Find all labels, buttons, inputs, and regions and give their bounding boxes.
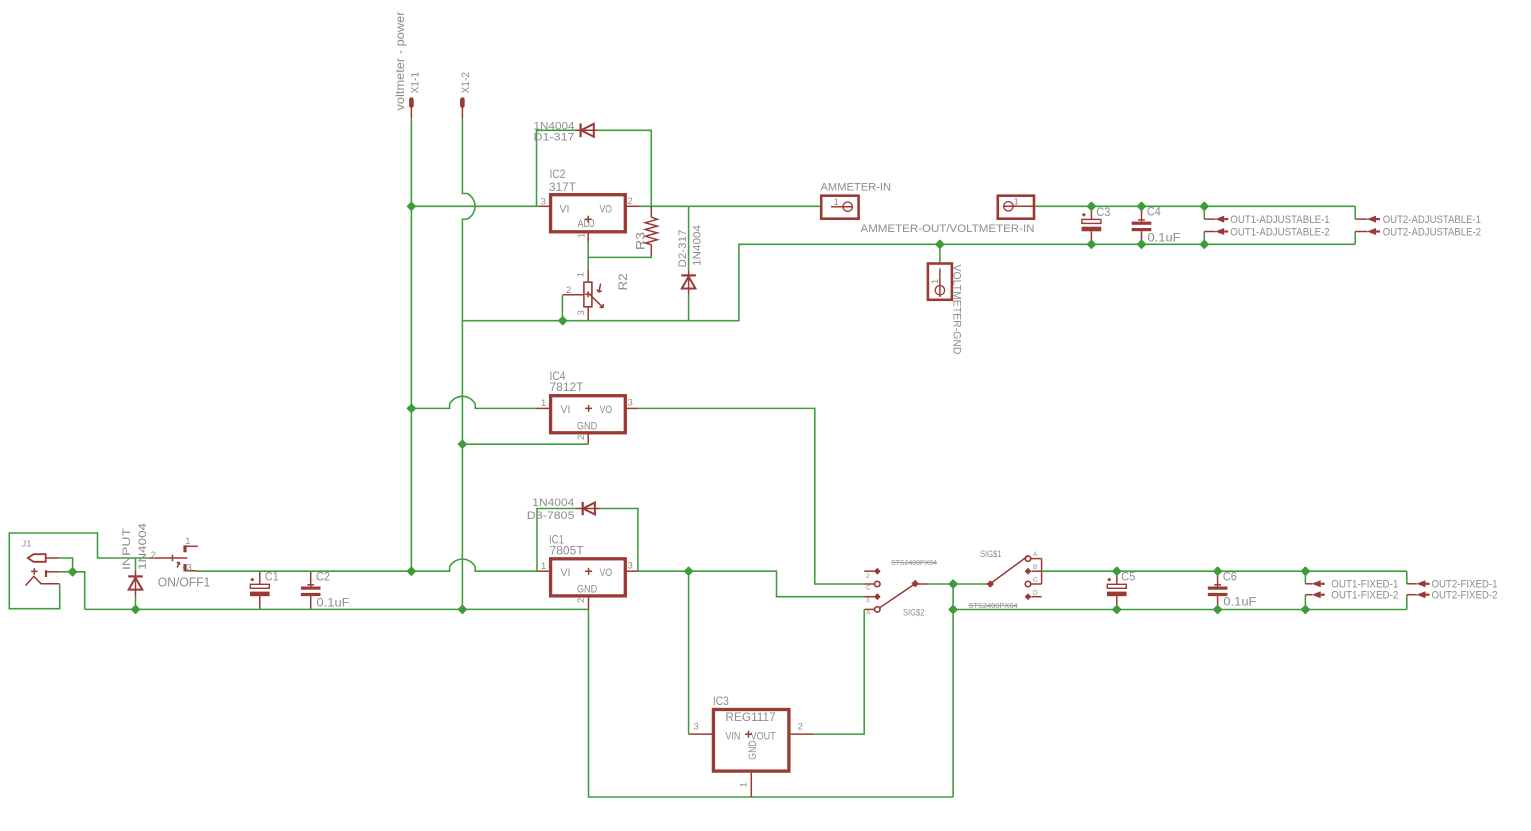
resistor R3 [645, 206, 657, 256]
capacitor C3 (electrolytic) [1082, 206, 1102, 244]
connector OUT2-FIXED-2 arrow [1407, 591, 1430, 598]
wire IC3 gnd rail up to SIG junction [952, 584, 954, 797]
connector OUT2-ADJUSTABLE-1 arrow [1355, 216, 1380, 223]
svg-text:R2: R2 [616, 273, 630, 290]
svg-text:C: C [1033, 577, 1038, 584]
IC1 origin cross [585, 568, 592, 575]
wire IC1 VO to SIG2 row [638, 571, 864, 597]
svg-text:C4: C4 [1147, 205, 1161, 219]
svg-text:OUT2-ADJUSTABLE-1: OUT2-ADJUSTABLE-1 [1383, 214, 1481, 226]
wire main rail C1/C2 row to IC1 with hop [197, 559, 537, 571]
connector OUT1-ADJUSTABLE-1 arrow [1204, 216, 1228, 223]
svg-text:AMMETER-IN: AMMETER-IN [821, 181, 892, 193]
J1 tip lead [46, 557, 59, 559]
node junction OUT1-ADJUSTABLE bottom [1201, 241, 1209, 249]
svg-text:D2-317: D2-317 [677, 230, 689, 268]
svg-text:D: D [1033, 589, 1038, 596]
wire X1-1 vertical [410, 118, 412, 572]
svg-text:1: 1 [834, 197, 839, 208]
wire J1 frame loop [9, 533, 148, 609]
svg-text:3: 3 [694, 722, 699, 733]
wire SIG$1 B out to C5/C6 top rail [1042, 570, 1407, 572]
IC4 pin 3 stub [625, 407, 638, 409]
node junction SIG rail bottom [949, 606, 957, 614]
wire OUT1-FIXED-2 rise [1304, 595, 1306, 610]
node junction J1 [69, 568, 77, 576]
node junction X1-1 / IC2 VI row [408, 203, 416, 211]
svg-text:SIG$2: SIG$2 [903, 607, 925, 618]
IC2 ADJ pin stub [587, 233, 589, 242]
svg-text:C1: C1 [265, 570, 279, 584]
regulator IC4 7812T box [551, 396, 626, 433]
svg-text:1: 1 [577, 233, 588, 238]
svg-text:SIG$1: SIG$1 [980, 549, 1002, 560]
J1 ring contact [45, 570, 47, 577]
svg-text:C2: C2 [316, 570, 330, 584]
wire R2 wiper to bottom rail [561, 295, 563, 320]
svg-text:3: 3 [866, 597, 870, 604]
node junction SIG rail top [949, 580, 957, 588]
wire IC2 VI row [411, 205, 538, 207]
pad AMMETER-OUT/VOLTMETER-IN [998, 196, 1034, 219]
svg-text:OUT2-FIXED-2: OUT2-FIXED-2 [1432, 590, 1498, 602]
wire IC4 GND to X1-2 column [462, 443, 588, 445]
svg-text:VIN: VIN [725, 730, 740, 742]
svg-text:2: 2 [576, 598, 587, 603]
node junction C5 bottom [1113, 606, 1121, 614]
svg-text:GND: GND [577, 584, 598, 596]
capacitor C1 (electrolytic) [250, 571, 270, 609]
wire IC1 output to IC3 VIN [688, 571, 690, 734]
wire OUT1-FIXED-1 drop [1304, 571, 1306, 584]
svg-text:GND: GND [577, 421, 598, 433]
wire OUT2-ADJUSTABLE-1 drop [1354, 206, 1356, 219]
IC2 pin 2 stub [625, 205, 640, 207]
svg-text:2: 2 [566, 285, 571, 296]
wire IC2 VO row to AMMETER-IN [640, 205, 820, 207]
wire IC4 VI row with hop [411, 396, 536, 408]
node junction voltmeter-gnd / rail [936, 241, 944, 249]
svg-text:0.1uF: 0.1uF [317, 595, 350, 609]
wire IC4 VO to SIG2 C [638, 408, 864, 584]
diode D1-317 symbol [575, 123, 598, 137]
node junction input diode / bottom rail [132, 606, 140, 614]
capacitor C5 (electrolytic) [1107, 571, 1127, 609]
svg-text:IC3: IC3 [713, 694, 729, 708]
IC2 pin 3 stub [539, 205, 551, 207]
node junction X1-2 / IC4 GND row [459, 440, 467, 448]
IC1 pin 3 stub [625, 570, 638, 572]
regulator IC1 7805T box [551, 559, 626, 596]
diode INPUT 1N4004 [128, 558, 143, 609]
svg-text:GND: GND [747, 740, 759, 760]
J1 switch lever [26, 576, 60, 585]
wire OUT1-ADJUSTABLE-1 drop [1203, 206, 1205, 219]
svg-text:2: 2 [798, 722, 803, 733]
node junction C4 top [1138, 203, 1146, 211]
svg-text:C6: C6 [1223, 570, 1237, 584]
diode D2-317 [681, 206, 696, 320]
pin X1-2 [460, 100, 465, 106]
IC1 pin 1 stub [537, 570, 551, 572]
node junction C5 top [1113, 567, 1121, 575]
wire D1 left leg [537, 130, 575, 206]
svg-text:1: 1 [541, 561, 546, 572]
svg-text:C5: C5 [1121, 570, 1135, 584]
wire D3 left leg [537, 509, 575, 572]
switch SIG$2 [864, 568, 927, 612]
svg-text:2: 2 [576, 435, 587, 440]
svg-text:0.1uF: 0.1uF [1223, 594, 1256, 608]
IC4 origin cross [585, 405, 592, 412]
svg-text:VI: VI [561, 567, 571, 579]
svg-text:1N4004: 1N4004 [532, 497, 574, 509]
svg-text:OUT1-FIXED-2: OUT1-FIXED-2 [1331, 590, 1398, 602]
svg-text:B: B [1033, 564, 1037, 571]
pad AMMETER-IN [821, 196, 858, 219]
node junction X1-1 / IC1 VI row [408, 567, 416, 575]
svg-text:X1-2: X1-2 [460, 72, 472, 94]
svg-text:317T: 317T [549, 180, 577, 194]
svg-text:1: 1 [738, 782, 749, 787]
capacitor C6 [1208, 571, 1228, 609]
svg-text:J1: J1 [22, 539, 32, 549]
svg-text:VI: VI [560, 204, 570, 216]
node junction R2 wiper / bottom rail [559, 317, 567, 325]
wire SIG$2 to SIG$1 common [928, 583, 986, 585]
svg-text:3: 3 [187, 563, 192, 574]
svg-text:1: 1 [576, 272, 587, 277]
node junction OUT-FIXED top [1302, 567, 1310, 575]
node junction OUT1-ADJUSTABLE top [1201, 203, 1209, 211]
svg-text:X1-1: X1-1 [410, 72, 422, 94]
svg-text:VI: VI [561, 404, 571, 416]
J1 plus mark [31, 568, 38, 575]
svg-text:3: 3 [576, 310, 587, 315]
wire bottom ground rail [85, 608, 589, 610]
node junction C3 top [1088, 203, 1096, 211]
IC2 origin cross [585, 216, 592, 223]
wire adjustable bottom rail [462, 244, 1355, 320]
wire X1-2 vertical with hop over IC2 row [462, 118, 475, 610]
IC3 origin cross [745, 731, 752, 738]
svg-text:OUT2-ADJUSTABLE-2: OUT2-ADJUSTABLE-2 [1383, 226, 1481, 238]
wire SIG bottom rail to C5/C6 [953, 609, 1407, 611]
svg-text:1N4004: 1N4004 [137, 523, 149, 570]
node junction OUT-FIXED bottom [1302, 606, 1310, 614]
svg-text:1: 1 [1014, 197, 1019, 208]
connector OUT2-ADJUSTABLE-2 arrow [1355, 228, 1380, 235]
svg-text:VO: VO [600, 404, 613, 416]
op-amp-style regulator IC2 317T box [551, 195, 626, 232]
svg-text:1: 1 [185, 536, 190, 547]
wire OUT1-ADJUSTABLE-2 rise [1203, 232, 1205, 245]
svg-text:R3: R3 [633, 232, 647, 250]
svg-text:C: C [866, 584, 871, 591]
IC4 pin 2 stub [587, 433, 589, 444]
svg-text:D1-317: D1-317 [534, 132, 575, 144]
svg-text:OUT1-ADJUSTABLE-1: OUT1-ADJUSTABLE-1 [1230, 214, 1329, 226]
diode D3-7805 symbol [575, 502, 600, 515]
svg-text:1N4004: 1N4004 [692, 225, 704, 266]
svg-text:A: A [1033, 551, 1038, 558]
svg-text:D3-7805: D3-7805 [527, 510, 575, 522]
wire D1 right leg [598, 130, 651, 206]
svg-text:IC2: IC2 [550, 167, 566, 181]
node junction C3 bottom [1088, 241, 1096, 249]
wire D3 right leg [600, 509, 638, 572]
svg-text:OUT1-ADJUSTABLE-2: OUT1-ADJUSTABLE-2 [1230, 226, 1329, 238]
node junction C4 bottom [1138, 241, 1146, 249]
svg-text:VO: VO [600, 204, 613, 216]
switch SIG$1 [986, 556, 1042, 600]
connector OUT1-ADJUSTABLE-2 arrow [1204, 228, 1228, 235]
svg-text:0.1uF: 0.1uF [1148, 230, 1181, 244]
pad VOLTMETER-GND [928, 264, 952, 300]
wire SIG2 A pin down to IC3 VOUT [814, 609, 864, 734]
capacitor C4 [1132, 206, 1152, 244]
svg-text:STS2400PX04: STS2400PX04 [969, 601, 1018, 610]
svg-text:3: 3 [628, 560, 633, 571]
IC3 pin 1 stub [750, 771, 752, 797]
svg-text:C3: C3 [1096, 205, 1110, 219]
svg-text:7812T: 7812T [550, 380, 585, 394]
wire IC1 GND down to IC3 rail [589, 609, 954, 797]
node junction X1-1 / IC4 VI row [408, 405, 416, 413]
IC4 pin 1 stub [536, 407, 550, 409]
connector OUT1-FIXED-2 arrow [1305, 591, 1324, 598]
wire OUT2-FIXED-2 rise [1406, 595, 1408, 610]
wire R3 bottom to ADJ [588, 242, 651, 270]
potentiometer R2 [562, 270, 603, 321]
node junction X1-2 / bottom rail [459, 606, 467, 614]
svg-text:1: 1 [541, 398, 546, 409]
IC3 pin 2 stub [789, 733, 814, 735]
regulator IC3 REG1117 box [713, 710, 789, 772]
wire OUT2-ADJUSTABLE-2 rise [1354, 232, 1356, 245]
svg-text:2: 2 [151, 550, 156, 561]
pin X1-1 [409, 100, 414, 106]
wire AMMETER-OUT to C3/C4 row [1035, 205, 1355, 207]
capacitor C2 [301, 571, 321, 609]
svg-text:ON/OFF1: ON/OFF1 [158, 575, 211, 589]
svg-text:A: A [866, 610, 871, 617]
svg-text:voltmeter - power: voltmeter - power [393, 12, 407, 111]
IC3 pin 3 stub [689, 733, 714, 735]
svg-text:STS2400PX04: STS2400PX04 [891, 558, 937, 567]
svg-text:7805T: 7805T [550, 543, 585, 557]
IC1 pin 2 stub [588, 596, 590, 610]
svg-text:REG1117: REG1117 [725, 710, 776, 724]
node junction C6 top [1214, 567, 1222, 575]
node junction IC1 output [685, 567, 693, 575]
svg-text:3: 3 [628, 398, 633, 409]
node junction C6 bottom [1214, 606, 1222, 614]
switch ON/OFF1 [148, 545, 198, 571]
wire J1 tip/ring to junction [59, 558, 85, 609]
wire VOLTMETER-GND drop [939, 244, 941, 262]
svg-text:1: 1 [930, 279, 941, 284]
connector OUT2-FIXED-1 arrow [1407, 580, 1430, 587]
wire OUT2-FIXED-1 drop [1406, 571, 1408, 584]
svg-text:2: 2 [866, 573, 870, 580]
connector OUT1-FIXED-1 arrow [1305, 580, 1324, 587]
svg-text:1N4004: 1N4004 [534, 120, 575, 132]
connector J1 jack tip pin [28, 554, 46, 562]
svg-text:AMMETER-OUT/VOLTMETER-IN: AMMETER-OUT/VOLTMETER-IN [861, 223, 1035, 235]
svg-text:VO: VO [600, 567, 613, 579]
svg-text:INPUT: INPUT [121, 528, 133, 570]
svg-text:VOLTMETER-GND: VOLTMETER-GND [950, 265, 962, 355]
